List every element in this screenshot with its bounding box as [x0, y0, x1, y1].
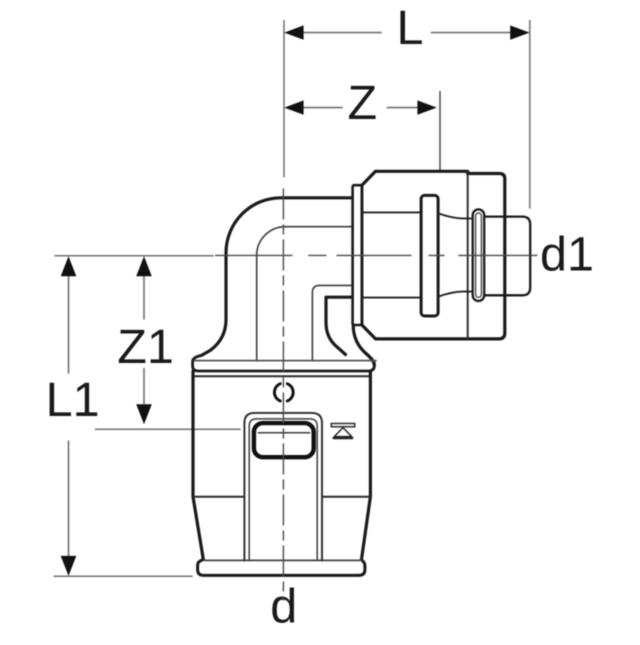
svg-text:Z1: Z1: [117, 320, 174, 374]
dimension L arrow left: [284, 25, 303, 39]
lower body white fill: [193, 355, 375, 575]
body top seam line: [194, 375, 371, 377]
body mid seam line right: [322, 496, 370, 498]
dimension Z line left segment: [302, 107, 342, 109]
elbow inner bore left arc: [257, 227, 353, 360]
socket taper line bottom: [438, 292, 473, 297]
stub white fill: [484, 217, 530, 296]
top bead ring outline: [193, 355, 375, 371]
horizontal centerline segment 3: [337, 254, 411, 256]
window inner outline: [249, 419, 317, 561]
dimension L1 arrow down: [61, 556, 77, 576]
svg-text:L: L: [397, 1, 424, 55]
horizontal centerline segment 2: [309, 254, 326, 256]
dimension L1 arrow up: [61, 256, 77, 276]
sleeve white fill: [362, 171, 505, 339]
bottom flange top line: [204, 559, 362, 561]
lower body right side: [362, 371, 371, 559]
press ridge: [421, 195, 438, 316]
pipe stub outline: [485, 217, 531, 296]
dimension Z line right segment: [388, 107, 419, 109]
socket bore line top: [362, 211, 421, 213]
o-ring band outer: [473, 209, 485, 301]
dimension L1 line upper segment: [68, 274, 70, 373]
dimension L1 line lower segment: [68, 441, 70, 559]
svg-text:L1: L1: [46, 373, 100, 427]
body mid seam line left: [193, 496, 244, 498]
dimension L1 bottom extension line: [54, 575, 192, 577]
dimension Z1 arrow down: [136, 404, 152, 424]
vertical centerline: [282, 189, 284, 600]
indicator circle left arc: [274, 384, 280, 401]
dimension Z arrow right: [417, 100, 436, 114]
socket bore line bottom: [362, 297, 421, 299]
window outer outline: [244, 413, 322, 561]
dimension Z arrow left: [284, 100, 303, 114]
dimension L line right part: [432, 32, 512, 34]
elbow right flare below collar: [353, 325, 374, 365]
o-ring band inner: [476, 213, 482, 297]
elbow outer contour left: [202, 198, 353, 356]
sleeve outline: [362, 171, 505, 339]
sleeve section line: [467, 171, 469, 339]
dimension L extension line left: [283, 21, 285, 177]
window thick frame: [254, 423, 314, 457]
window frame inner line: [258, 432, 309, 434]
marking symbol bar: [331, 423, 355, 426]
elbow body white fill: [202, 198, 371, 376]
bottom flange outline: [198, 559, 365, 575]
top bead top surface line: [195, 360, 377, 362]
elbow outer contour right notch: [326, 297, 353, 354]
horizontal centerline segment 1: [216, 254, 293, 256]
dimension L line: [302, 32, 381, 34]
dimension Z1 line upper segment: [143, 274, 145, 319]
horizontal centerline segment 4: [429, 254, 444, 256]
dimension Z1 arrow up: [136, 256, 152, 276]
lower body left side: [193, 371, 203, 559]
elbow inner bore right corner: [312, 285, 352, 360]
dimension Z extension line right: [439, 92, 441, 187]
socket taper line top: [438, 213, 473, 218]
svg-text:Z: Z: [348, 76, 378, 130]
dimension Z1 line lower segment: [143, 369, 145, 405]
svg-text:d1: d1: [540, 227, 594, 281]
indicator circle right arc: [287, 384, 293, 401]
dimension Z1 bottom extension line: [96, 428, 241, 430]
horizontal centerline segment 5: [459, 254, 537, 256]
marking symbol base line: [334, 437, 353, 439]
dimension L1 Z1 top extension line: [55, 255, 213, 257]
collar washer: [353, 185, 362, 325]
dimension L extension line right: [529, 21, 531, 208]
marking symbol triangle: [334, 428, 352, 437]
dimension L arrow right: [510, 25, 529, 39]
